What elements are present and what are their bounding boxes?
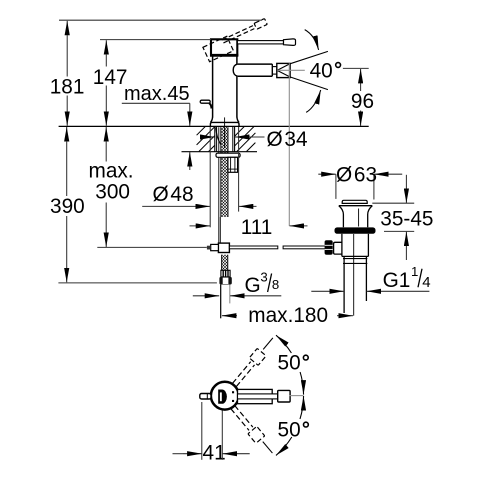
lever end cap bbox=[284, 39, 296, 46]
svg-text:300: 300 bbox=[95, 180, 130, 203]
svg-text:max.: max. bbox=[89, 160, 134, 183]
bell reflection line bbox=[358, 209, 360, 227]
body flare right bbox=[237, 117, 239, 122]
svg-text:4: 4 bbox=[422, 274, 430, 291]
svg-text:3: 3 bbox=[260, 269, 267, 284]
shank wall left bbox=[216, 126, 218, 151]
dim 41 bbox=[173, 402, 250, 460]
svg-text:G: G bbox=[245, 274, 261, 297]
dim Ø34 bbox=[203, 136, 215, 138]
390 bottom ref line bbox=[58, 282, 217, 284]
svg-text:181: 181 bbox=[50, 76, 85, 99]
aerator box bbox=[277, 63, 290, 77]
tailpipe right wall bbox=[365, 256, 367, 301]
neck top bbox=[272, 66, 277, 68]
svg-text:35-45: 35-45 bbox=[380, 208, 433, 231]
hose crimp sleeve bbox=[221, 270, 230, 277]
spout face bbox=[271, 64, 273, 76]
dim 96 bbox=[343, 67, 369, 69]
circle dots bbox=[232, 391, 234, 393]
deck surface top line bbox=[59, 125, 369, 127]
neck bottom bbox=[272, 73, 277, 75]
max.45 lower arrow bbox=[189, 152, 191, 170]
shank hole left edge bbox=[214, 126, 216, 151]
gray centerline from aerator bbox=[277, 69, 305, 71]
spout top line bbox=[238, 63, 273, 65]
svg-text:Ø 34: Ø 34 bbox=[267, 128, 308, 151]
deck hatch left bbox=[197, 127, 215, 152]
svg-text:50: 50 bbox=[278, 419, 301, 442]
pull rod bbox=[218, 127, 220, 243]
head (cartridge housing) bbox=[211, 39, 237, 55]
waste flange bbox=[335, 227, 376, 233]
waste centerline bbox=[353, 234, 355, 316]
svg-text:147: 147 bbox=[93, 66, 128, 89]
lever cap (top view) bbox=[278, 390, 290, 402]
body flare left bbox=[211, 117, 213, 122]
plug bell top line bbox=[339, 205, 373, 207]
faucet body left edge bbox=[212, 56, 214, 117]
hose G3/8 nut bbox=[219, 277, 231, 285]
waste body left wall bbox=[341, 234, 343, 257]
rod clamp mid piece bbox=[211, 244, 219, 250]
max.45 leader bbox=[122, 102, 190, 104]
waste body right wall bbox=[367, 234, 369, 257]
rod clamp block bbox=[218, 243, 229, 252]
gray vertical G3/8 extension bbox=[229, 285, 231, 304]
dim G1 1/4 bbox=[311, 290, 344, 292]
50deg arc upper bbox=[276, 335, 291, 353]
faucet centerline bbox=[224, 117, 226, 148]
plug bell right side bbox=[368, 206, 373, 228]
spout bottom line bbox=[238, 75, 273, 77]
dim G3/8 bbox=[193, 295, 219, 297]
dim max.180 bbox=[222, 315, 237, 317]
svg-text:40: 40 bbox=[310, 59, 333, 82]
40deg lower ray bbox=[290, 77, 328, 90]
head bottom thick bar bbox=[210, 54, 238, 57]
deck bottom line bbox=[182, 151, 258, 153]
mounting washer bbox=[216, 153, 240, 157]
svg-text:1: 1 bbox=[411, 264, 418, 279]
svg-text:390: 390 bbox=[50, 195, 85, 218]
braided hose lower band bbox=[222, 255, 228, 271]
lever arm bbox=[237, 41, 283, 44]
dim 35-45 bbox=[372, 202, 414, 204]
40deg upper arc arrow bbox=[305, 30, 319, 50]
dim 147 bbox=[105, 40, 107, 54]
plug bell left side bbox=[339, 206, 344, 228]
50deg arc lower bbox=[276, 437, 292, 455]
gray vertical outlet extension bbox=[288, 63, 290, 226]
dim 390 bbox=[66, 127, 68, 141]
svg-text:max.180: max.180 bbox=[248, 304, 328, 327]
horizontal rod segment 1 bbox=[229, 246, 277, 249]
40deg upper ray bbox=[290, 51, 328, 63]
dim 181 bbox=[66, 21, 68, 35]
dim Ø48 bbox=[209, 127, 211, 227]
svg-text:G1: G1 bbox=[383, 269, 411, 292]
rod clamp nub bbox=[207, 246, 211, 250]
lever (top view) bbox=[238, 389, 273, 403]
aerator X lower bbox=[277, 70, 290, 77]
braided hose upper band bbox=[221, 127, 228, 217]
top ref line (181 / lever tip) bbox=[59, 19, 262, 21]
max.300 bottom ref line (rod level) bbox=[97, 246, 207, 248]
hose curve in shank bbox=[216, 127, 221, 144]
plug cap disk bbox=[342, 200, 367, 203]
horizontal rod segment 2 bbox=[283, 246, 326, 249]
locknut ring lines bbox=[343, 258, 367, 260]
svg-text:111: 111 bbox=[241, 216, 273, 239]
svg-text:Ø 48: Ø 48 bbox=[153, 183, 194, 206]
dashed lever +50deg (up) bbox=[230, 335, 278, 389]
waste vertical extension to max.180 bbox=[352, 293, 354, 316]
side port bbox=[334, 242, 342, 254]
faucet body right edge lower bbox=[236, 76, 238, 117]
pop-up knob (top view) bbox=[200, 394, 211, 400]
mounting nut bbox=[228, 157, 238, 172]
spout back arc bbox=[233, 64, 238, 76]
svg-text:max.45: max.45 bbox=[124, 83, 190, 105]
body circle bbox=[211, 382, 239, 410]
spout white fill bbox=[233, 65, 272, 76]
dim Ø63 bbox=[335, 174, 337, 199]
shank hole right edge bbox=[234, 126, 236, 151]
base escutcheon bbox=[210, 122, 239, 126]
ref line (147 / head top) bbox=[100, 39, 211, 41]
svg-text:50: 50 bbox=[278, 352, 301, 375]
svg-text:96: 96 bbox=[351, 90, 374, 113]
faucet body right edge upper bbox=[236, 56, 238, 64]
shank wall right bbox=[232, 126, 234, 151]
aerator X upper bbox=[277, 64, 290, 71]
gray 0deg line bbox=[290, 395, 304, 397]
tailpipe left wall bbox=[343, 256, 345, 313]
waste body shoulder bbox=[342, 255, 369, 257]
cartridge D shape bbox=[218, 390, 227, 404]
dashed lever -50deg (down) bbox=[228, 403, 276, 457]
dim max.300 bbox=[105, 127, 107, 141]
svg-text:Ø 63: Ø 63 bbox=[336, 163, 377, 186]
svg-text:8: 8 bbox=[272, 277, 279, 292]
deck hatch right bbox=[235, 127, 256, 152]
clamp screw knob bbox=[325, 240, 333, 255]
hose end extension line bbox=[220, 285, 222, 319]
40deg lower arc arrow bbox=[306, 90, 321, 112]
pop-up rod knob bbox=[209, 103, 212, 108]
dashed head + lever (open position) bbox=[203, 19, 272, 62]
dim 111 bbox=[190, 225, 211, 227]
